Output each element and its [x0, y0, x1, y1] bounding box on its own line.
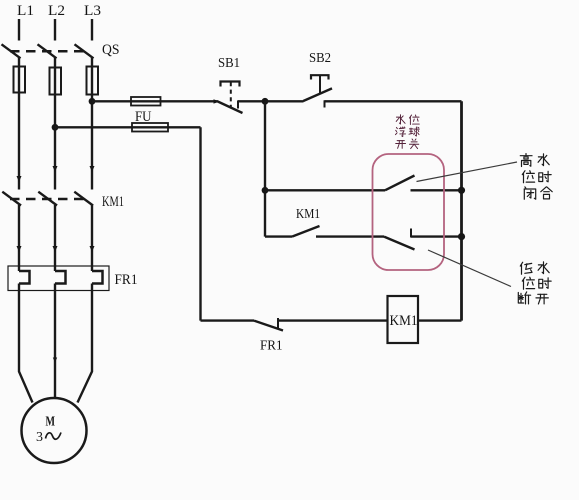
- thermal relay FR1 box: [8, 266, 109, 291]
- fuse phase L3: [87, 67, 99, 95]
- wire L2 incoming stub: [54, 19, 56, 41]
- arrow on motor lead 2: [53, 358, 57, 363]
- wire L2 fuse through-line down to KM1: [54, 68, 56, 190]
- fuse phase L1: [14, 67, 26, 93]
- arrow on L1 line: [17, 176, 22, 182]
- arrow on L1 line above FR1: [17, 246, 22, 252]
- float switch 1 blade NO high water: [385, 176, 415, 191]
- svg-text:L3: L3: [84, 3, 101, 19]
- svg-text:SB1: SB1: [218, 56, 240, 71]
- svg-text:QS: QS: [102, 42, 120, 58]
- FR1 control contact blade NC: [254, 321, 283, 331]
- wire KM1 aux to float switch 2: [316, 235, 384, 237]
- fuse FU1 control: [131, 97, 161, 106]
- fuse phase L2: [50, 68, 62, 95]
- QS mechanical link dashed line: [10, 50, 87, 53]
- arrow on L2 line: [53, 166, 58, 172]
- pushbutton SB1 actuator dashed: [230, 82, 232, 108]
- coil KM1 box: [388, 296, 419, 343]
- svg-text:L2: L2: [48, 3, 65, 19]
- contactor KM1 main pole 2: [38, 192, 57, 206]
- node junction on L3 feeding control circuit: [89, 98, 96, 105]
- motor tilde symbol: [46, 433, 62, 440]
- annotation leader line high water: [417, 162, 518, 182]
- svg-text:3: 3: [36, 430, 43, 445]
- switch QS pole 1 blade: [2, 44, 21, 58]
- annotation text high water closes (CJK): [520, 154, 552, 200]
- wire L3 incoming stub: [91, 19, 93, 41]
- FR1 heater element phase 2: [55, 271, 66, 284]
- node junction on L2 feeding control circuit: [52, 124, 59, 131]
- wire L3 KM1 to FR1: [91, 205, 93, 271]
- arrow on L3 line above FR1: [90, 246, 95, 252]
- pushbutton SB1 blade NC: [218, 101, 243, 113]
- FR1 control contact tick: [277, 318, 279, 329]
- wire float switch 2 to right rail: [411, 235, 462, 237]
- svg-text:KM1: KM1: [102, 194, 124, 210]
- KM1 auxiliary contact blade NO: [292, 226, 320, 237]
- svg-text:KM1: KM1: [390, 313, 418, 329]
- wire L3 junction to control fuse FU1: [92, 100, 218, 102]
- svg-text:KM1: KM1: [296, 207, 320, 222]
- label water level float switch (CJK): [395, 115, 419, 149]
- arrow on L3 line: [90, 166, 95, 172]
- svg-text:FR1: FR1: [115, 272, 138, 288]
- wire motor lead 2: [54, 284, 56, 399]
- wire motor lead 1: [19, 284, 33, 403]
- contactor KM1 main pole 3: [74, 192, 93, 206]
- wire to KM1 aux contact: [265, 235, 292, 237]
- KM1 mechanical link dashed line: [10, 198, 87, 201]
- contactor KM1 main pole 1: [2, 192, 21, 206]
- wire QS pole2 to fuse: [54, 57, 56, 68]
- wire motor lead 3: [78, 284, 93, 403]
- pushbutton SB1 cap: [221, 82, 240, 87]
- node junction dot right rail upper: [458, 187, 465, 194]
- svg-text:FR1: FR1: [260, 339, 283, 354]
- wire node A to SB2: [265, 100, 304, 102]
- wire L2 KM1 to FR1: [54, 205, 56, 271]
- annotation text low water opens (CJK): [518, 262, 551, 304]
- wire float switch 1 to right rail: [411, 189, 462, 191]
- wire bottom control to FR1 contact: [201, 319, 255, 321]
- wire L3 fuse through-line down to KM1: [91, 67, 93, 190]
- wire left control rail vertical: [199, 127, 201, 320]
- wire QS pole3 to fuse: [91, 57, 93, 67]
- wire L1 incoming stub: [18, 19, 20, 41]
- wire QS pole1 to fuse: [18, 57, 20, 67]
- wire L1 fuse through-line down to KM1: [18, 67, 20, 190]
- SB1 left contact arrowhead: [214, 99, 220, 103]
- fuse FU2 control: [132, 123, 168, 132]
- float switch enclosure rounded box: [373, 154, 445, 270]
- wire coil to right rail: [418, 319, 462, 321]
- FR1 heater element phase 1: [19, 271, 30, 284]
- switch QS pole 3 blade: [75, 44, 94, 58]
- wire SB2 to top right corner: [325, 100, 462, 102]
- pushbutton SB2 cap: [311, 75, 329, 79]
- svg-text:SB2: SB2: [309, 51, 331, 66]
- SB2 fixed contact tick: [324, 100, 326, 107]
- wire right control rail: [460, 101, 463, 320]
- annotation leader line low water: [428, 250, 511, 287]
- FR1 heater element phase 3: [92, 271, 103, 284]
- SB1 fixed contact tick: [237, 100, 239, 108]
- wire SB1 to node A: [238, 100, 265, 102]
- node B junction dot: [262, 187, 269, 194]
- float switch 2 fixed contact tick: [410, 229, 412, 238]
- svg-text:M: M: [46, 415, 56, 430]
- wire node B to float switch 1: [265, 189, 385, 191]
- svg-text:L1: L1: [17, 3, 34, 19]
- motor M circle: [22, 398, 87, 463]
- wire L1 KM1 to FR1: [18, 205, 20, 271]
- float switch 2 blade NC low water: [384, 237, 415, 250]
- arrow on L2 line above FR1: [53, 246, 58, 252]
- node A junction dot: [262, 98, 269, 105]
- wire L2 junction to control fuse FU2: [55, 126, 201, 128]
- wire node A down to float switch level: [264, 101, 266, 236]
- switch QS pole 2 blade: [38, 44, 57, 58]
- wire FR1 contact to coil KM1: [278, 319, 388, 321]
- pushbutton SB2 blade NO: [303, 88, 332, 101]
- node junction dot right rail lower: [458, 233, 465, 240]
- pushbutton SB2 actuator: [319, 75, 321, 95]
